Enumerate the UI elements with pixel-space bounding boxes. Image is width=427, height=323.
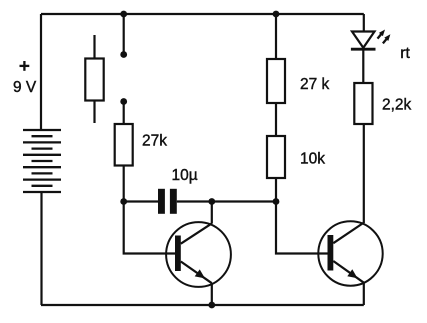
wire emitter lead Q2 [363,283,365,305]
wire collector lead Q2 from resistor [363,124,365,223]
wire collector node to divider node [212,200,276,202]
node terminal lower [120,98,127,105]
battery B1 9V [23,130,61,192]
wire right branch top [363,14,365,32]
svg-text:10k: 10k [300,150,325,167]
wire base path Q2 [276,202,328,254]
capacitor C1 10u [124,189,212,214]
wire node stub from top rail [123,14,125,55]
wire base path Q1 [124,202,175,254]
resistor R5 2,2k [354,83,372,124]
svg-text:10µ: 10µ [172,167,198,184]
resistor R3 27 k [267,14,285,136]
resistor R2 27k [115,102,133,202]
wire LED to resistor R5 [362,49,364,83]
svg-text:27k: 27k [142,133,167,150]
node junction top rail right [273,11,280,18]
wire emitter lead Q1 [211,283,213,305]
wire bottom rail [41,304,364,306]
svg-text:2,2k: 2,2k [382,97,412,114]
LED D1 [351,32,376,50]
label + polarity [20,61,30,71]
node divider junction [273,198,280,205]
wire left rail to battery [40,14,42,130]
resistor R1 (floating, unlabeled) [85,35,103,123]
resistor R4 10k [267,136,285,202]
svg-text:9 V: 9 V [13,79,37,96]
transistor Q2 [318,221,382,285]
node emitter Q1 on bottom rail [208,302,215,309]
node collector Q1 [208,198,215,205]
wire collector lead Q1 [211,202,213,224]
svg-text:rt: rt [400,45,410,62]
svg-text:27 k: 27 k [300,76,330,93]
LED arrow 1 [378,30,386,39]
node terminal upper [120,51,127,58]
LED arrow 2 [383,34,391,43]
node junction base column Q1 [120,198,127,205]
node junction top rail left [120,11,127,18]
transistor Q1 [166,222,231,287]
wire top rail [41,13,364,15]
wire battery minus to bottom rail [40,191,42,305]
